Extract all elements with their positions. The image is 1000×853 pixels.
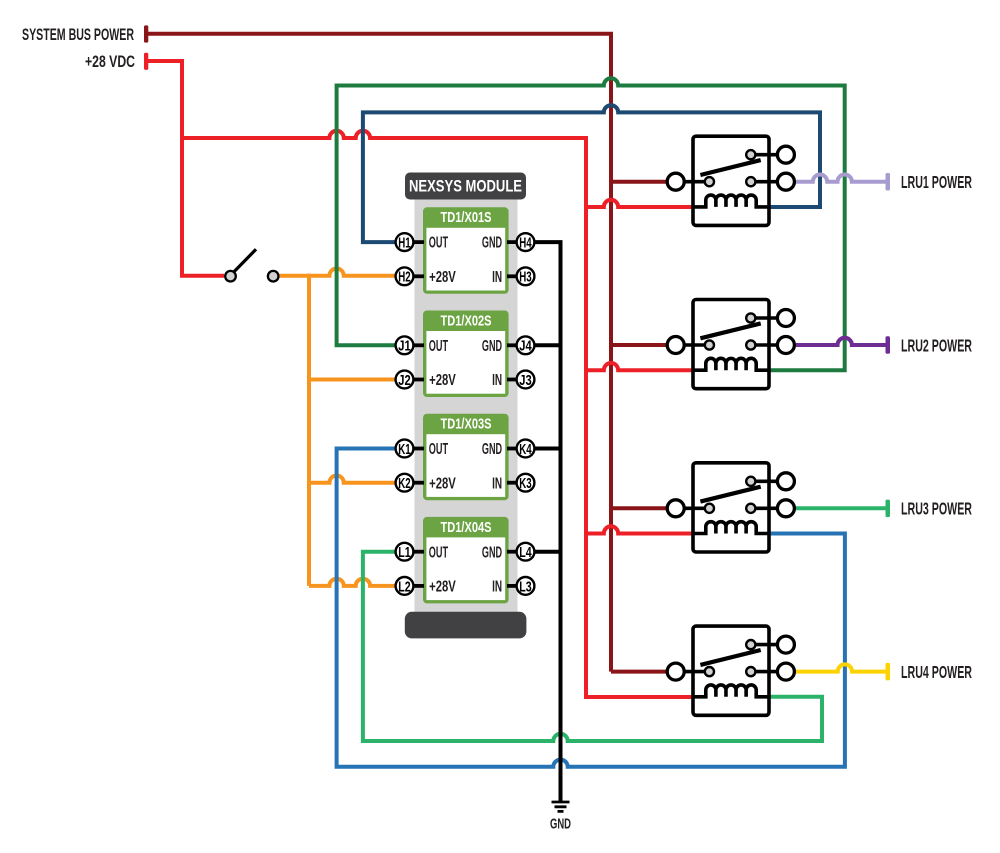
svg-text:J3: J3 — [519, 372, 531, 389]
svg-text:TD1/X02S: TD1/X02S — [441, 313, 492, 329]
svg-text:IN: IN — [492, 475, 502, 492]
relay RLY1 box — [693, 136, 769, 225]
pin H4 stub — [507, 240, 520, 244]
switch S1 lever — [234, 249, 256, 271]
terminal +28 VDC — [144, 53, 148, 70]
relay RLY1 lever — [700, 160, 760, 175]
relay RLY4 input terminal — [667, 663, 684, 680]
wire H1 to relay RLY1 coil return (hop over system bus) — [363, 105, 820, 242]
wire LRU3 POWER — [796, 506, 886, 510]
relay RLY1 NO contact wire — [751, 153, 781, 157]
svg-text:OUT: OUT — [429, 441, 449, 458]
ground symbol — [552, 802, 570, 811]
svg-text:TD1/X01S: TD1/X01S — [441, 210, 492, 226]
svg-text:IN: IN — [492, 269, 502, 286]
relay RLY3 output terminal — [777, 500, 794, 517]
relay RLY4 output contact wire — [751, 670, 781, 674]
svg-text:NEXSYS MODULE: NEXSYS MODULE — [409, 177, 522, 196]
pin L1 — [396, 543, 414, 561]
pin K4 stub — [507, 447, 520, 451]
wire L4 to GND bus — [535, 550, 563, 554]
svg-text:+28V: +28V — [429, 579, 456, 596]
relay RLY3 coil — [693, 522, 769, 534]
terminal LRU2 POWER — [886, 336, 891, 354]
svg-text:J1: J1 — [398, 338, 410, 355]
pin J4 stub — [507, 343, 520, 347]
wire K4 to GND bus — [535, 447, 563, 451]
relay RLY2 output contact wire — [751, 343, 781, 347]
svg-text:K2: K2 — [398, 475, 410, 492]
svg-text:J2: J2 — [398, 372, 410, 389]
svg-text:IN: IN — [492, 579, 502, 596]
pin K3 stub — [507, 481, 520, 485]
NEXSYS module body (gray column) — [415, 186, 518, 612]
relay RLY2 output terminal — [777, 337, 794, 354]
terminal SYSTEM BUS POWER — [144, 25, 148, 42]
relay RLY3 box — [693, 463, 769, 552]
module block TD1/X02S — [423, 311, 509, 398]
relay RLY1 output dot — [746, 177, 755, 186]
relay RLY1 NO dot — [746, 150, 755, 159]
wire orange branch to pin L2 (hops over K1 and L1 wires) — [309, 579, 396, 586]
relay RLY2 output dot — [746, 340, 755, 349]
svg-text:+28 VDC: +28 VDC — [85, 53, 135, 71]
switch S1 left contact — [225, 271, 236, 282]
svg-text:J4: J4 — [519, 338, 532, 355]
svg-text:GND: GND — [482, 441, 502, 458]
relay RLY2 lever — [700, 323, 760, 338]
relay RLY1 input terminal — [667, 173, 684, 190]
svg-text:GND: GND — [482, 338, 502, 355]
svg-text:H2: H2 — [398, 269, 410, 286]
relay RLY4 NO contact wire — [751, 643, 781, 647]
pin L1 stub — [410, 550, 424, 554]
svg-text:H4: H4 — [519, 235, 532, 252]
pin L3 stub — [507, 584, 520, 588]
svg-text:GND: GND — [482, 544, 502, 561]
svg-text:K3: K3 — [519, 475, 531, 492]
pin K1 — [396, 440, 414, 458]
pin L3 — [517, 577, 535, 595]
svg-text:GND: GND — [550, 816, 571, 833]
relay RLY1 coil — [693, 195, 769, 207]
pin L4 — [517, 543, 535, 561]
wire system bus stub to relay RLY3 pole — [611, 506, 666, 510]
svg-text:H3: H3 — [519, 269, 531, 286]
pin L2 — [396, 577, 414, 595]
svg-text:H1: H1 — [398, 235, 410, 252]
svg-text:L3: L3 — [519, 578, 531, 595]
relay RLY4 output dot — [746, 667, 755, 676]
pin J1 stub — [410, 343, 424, 347]
relay RLY2 NO contact wire — [751, 316, 781, 320]
wire LRU4 POWER (hop over RLY3 coil wire) — [796, 664, 886, 671]
wire LRU2 POWER (hop over RLY2 coil wire) — [796, 338, 886, 345]
pin J3 — [517, 371, 535, 389]
relay RLY3 input terminal — [667, 500, 684, 517]
wire J4 to GND bus — [535, 343, 563, 347]
svg-text:LRU1 POWER: LRU1 POWER — [901, 172, 972, 192]
pin K1 stub — [410, 447, 424, 451]
svg-text:+28V: +28V — [429, 372, 456, 389]
pin J4 — [517, 336, 535, 354]
svg-text:OUT: OUT — [429, 544, 449, 561]
NEXSYS module footer — [405, 612, 527, 639]
relay RLY4 pole wire — [680, 670, 709, 674]
relay RLY1 output contact wire — [751, 180, 781, 184]
terminal LRU1 POWER — [886, 173, 891, 191]
pin K2 stub — [410, 481, 424, 485]
relay RLY2 NO dot — [746, 313, 755, 322]
relay RLY2 box — [693, 300, 769, 389]
relay RLY4 lever — [700, 650, 760, 665]
wire coil feed to relay RLY3 (hop over system bus) — [586, 526, 694, 533]
wire coil feed to relay RLY2 (hop over system bus) — [586, 363, 694, 370]
relay RLY2 pole wire — [680, 343, 709, 347]
wire LRU1 POWER (hops over RLY1 and RLY2 coil wires) — [796, 174, 886, 181]
relay RLY4 coil — [693, 685, 769, 697]
relay RLY3 output dot — [746, 504, 755, 513]
wire H4 to GND bus — [535, 240, 563, 244]
wire orange branch to pin K2 (hop over K1 wire) — [309, 476, 396, 483]
pin K3 — [517, 474, 535, 492]
svg-text:OUT: OUT — [429, 338, 449, 355]
wire +28 VDC branch to coil bus (hops over J1 and H1 wires) — [182, 131, 694, 697]
wire GND bus vertical — [559, 242, 563, 802]
relay RLY2 coil — [693, 358, 769, 370]
wire L1 to relay RLY4 coil return (hop over GND bus) — [363, 552, 822, 741]
wire SYSTEM BUS POWER bus (top horizontal + right vertical) — [148, 34, 611, 672]
pin H4 — [517, 233, 535, 251]
pin J3 stub — [507, 378, 520, 382]
svg-text:L4: L4 — [519, 544, 532, 561]
svg-text:K4: K4 — [519, 441, 532, 458]
svg-text:+28V: +28V — [429, 475, 456, 492]
pin K4 — [517, 440, 535, 458]
relay RLY1 pole wire — [680, 180, 709, 184]
wire coil feed to relay RLY1 (hop over system bus) — [586, 200, 694, 207]
wire switch to pin H2 (hop over J1 wire) — [280, 269, 397, 276]
wire orange distribution vertical — [307, 274, 311, 586]
relay RLY3 pole dot — [705, 504, 714, 513]
NEXSYS MODULE title box — [405, 173, 526, 200]
pin H2 stub — [410, 274, 424, 278]
svg-text:LRU2 POWER: LRU2 POWER — [901, 335, 972, 355]
relay RLY4 NO dot — [746, 640, 755, 649]
pin L4 stub — [507, 550, 520, 554]
svg-text:TD1/X03S: TD1/X03S — [441, 417, 492, 433]
svg-text:OUT: OUT — [429, 235, 449, 252]
pin H1 stub — [410, 240, 424, 244]
relay RLY2 input terminal — [667, 337, 684, 354]
svg-text:LRU3 POWER: LRU3 POWER — [901, 499, 972, 519]
pin H3 stub — [507, 274, 520, 278]
svg-text:L2: L2 — [398, 578, 410, 595]
svg-text:LRU4 POWER: LRU4 POWER — [901, 662, 972, 682]
pin L2 stub — [410, 584, 424, 588]
relay RLY3 NO contact wire — [751, 479, 781, 483]
pin H3 — [517, 267, 535, 285]
svg-text:GND: GND — [482, 235, 502, 252]
wire system bus stub to relay RLY2 pole — [611, 343, 666, 347]
terminal LRU3 POWER — [886, 500, 891, 517]
wire J1 to relay RLY2 coil return (hop over system bus) — [337, 78, 845, 370]
relay RLY4 box — [693, 626, 769, 715]
module block TD1/X01S — [423, 207, 509, 293]
switch S1 right contact — [268, 271, 279, 282]
relay RLY3 output contact wire — [751, 506, 781, 510]
pin J2 stub — [410, 378, 424, 382]
svg-text:IN: IN — [492, 372, 502, 389]
module block TD1/X04S — [423, 517, 509, 604]
svg-text:SYSTEM BUS POWER: SYSTEM BUS POWER — [22, 26, 134, 44]
pin H2 — [396, 267, 414, 285]
relay RLY2 pole dot — [705, 340, 714, 349]
relay RLY1 output terminal — [777, 173, 794, 190]
svg-text:TD1/X04S: TD1/X04S — [441, 520, 492, 536]
pin H1 — [396, 233, 414, 251]
wire +28 VDC to switch — [148, 61, 224, 276]
pin J2 — [396, 371, 414, 389]
module block TD1/X03S — [423, 414, 509, 501]
wire system bus stub to relay RLY1 pole — [611, 180, 666, 184]
relay RLY3 pole wire — [680, 506, 709, 510]
svg-text:K1: K1 — [398, 441, 410, 458]
wire K1 to relay RLY3 coil return (hop over GND bus) — [337, 449, 845, 767]
relay RLY2 NO terminal — [777, 310, 794, 327]
relay RLY3 NO terminal — [777, 473, 794, 490]
relay RLY1 NO terminal — [777, 146, 794, 163]
relay RLY4 NO terminal — [777, 636, 794, 653]
wire system bus stub to relay RLY4 pole — [611, 670, 666, 674]
svg-text:+28V: +28V — [429, 269, 456, 286]
relay RLY4 output terminal — [777, 663, 794, 680]
relay RLY3 lever — [700, 487, 760, 502]
svg-text:L1: L1 — [398, 544, 410, 561]
relay RLY1 pole dot — [705, 177, 714, 186]
relay RLY4 pole dot — [705, 667, 714, 676]
wire orange branch to pin J2 — [309, 378, 396, 382]
relay RLY3 NO dot — [746, 477, 755, 486]
terminal LRU4 POWER — [886, 663, 891, 681]
pin K2 — [396, 474, 414, 492]
pin J1 — [396, 336, 414, 354]
